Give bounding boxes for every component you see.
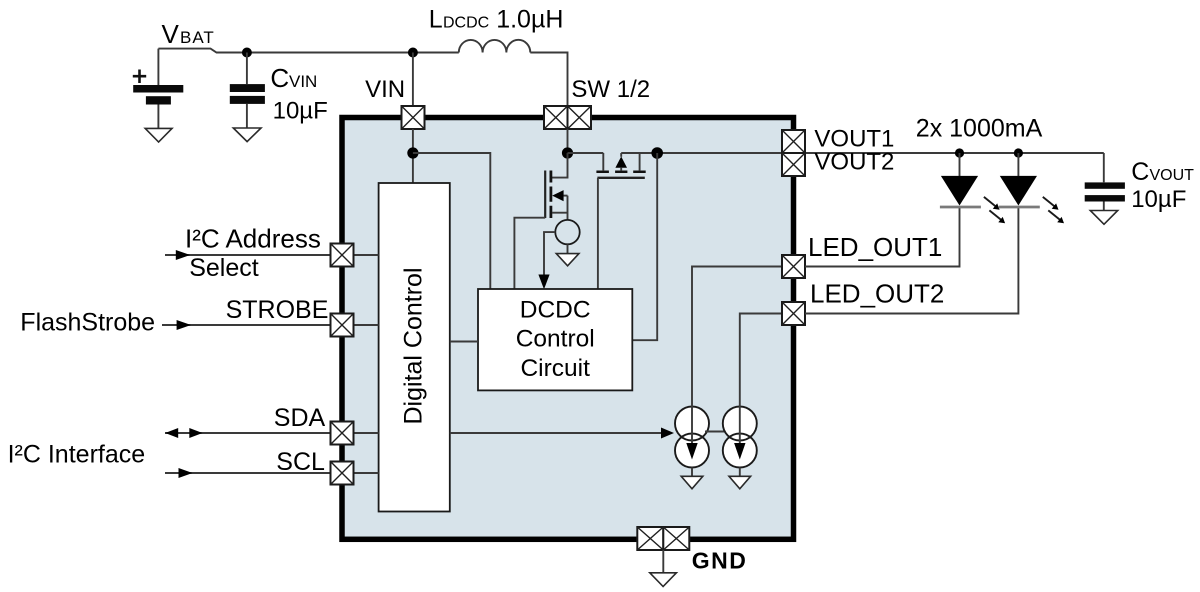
wire inductor to SW (530, 53, 567, 107)
svg-text:C: C (270, 63, 289, 93)
node N2 junction (408, 48, 418, 58)
svg-text:1.0µH: 1.0µH (496, 6, 563, 34)
wire Digital Control to DCDC (450, 341, 478, 343)
svg-text:Select: Select (189, 254, 259, 282)
ground (CVOUT) (1090, 211, 1117, 225)
wire VOUT rail (621, 152, 1104, 154)
svg-text:Control: Control (516, 326, 595, 353)
svg-text:Digital Control: Digital Control (400, 267, 428, 424)
node D1 anode junction (955, 148, 964, 157)
svg-text:DCDC: DCDC (520, 297, 591, 324)
pin SW1/2 (544, 106, 591, 129)
pin STROBE (331, 314, 354, 337)
svg-text:Circuit: Circuit (520, 355, 590, 382)
capacitor CVIN (230, 53, 265, 128)
svg-text:DCDC: DCDC (443, 15, 489, 32)
wire VBAT rail (158, 49, 458, 53)
pin VOUT2 (782, 153, 805, 176)
wire LED_OUT1 internal (692, 267, 782, 407)
label CVOUT value (1131, 158, 1194, 213)
svg-text:STROBE: STROBE (226, 296, 329, 324)
node N1 junction (242, 48, 252, 58)
svg-text:VIN: VIN (365, 76, 405, 103)
wire LED_OUT2 internal (740, 314, 782, 407)
wire Q2 gate to DCDC (597, 178, 599, 289)
ground (I2) (681, 476, 703, 489)
wire I2C address input (165, 250, 379, 260)
ground (GND pin) (650, 573, 677, 587)
ground (I3) (729, 476, 751, 489)
svg-text:BAT: BAT (180, 28, 215, 47)
node C junction (651, 147, 663, 159)
pin SCL (331, 462, 354, 485)
ground (I1) (556, 254, 579, 266)
battery V1 (133, 49, 183, 128)
svg-text:LED_OUT1: LED_OUT1 (808, 232, 942, 262)
pin VIN (402, 106, 425, 129)
node B junction (562, 147, 573, 158)
svg-text:SDA: SDA (274, 404, 326, 432)
svg-text:V: V (162, 19, 180, 49)
node VBAT label (162, 19, 215, 49)
svg-text:VIN: VIN (289, 72, 317, 91)
svg-text:10µF: 10µF (1131, 186, 1186, 213)
transistor Q2 sync rectifier with body diode (568, 153, 646, 178)
wire GND pin to ground (662, 550, 664, 573)
node D2 anode junction (1014, 148, 1023, 157)
svg-text:LED_OUT2: LED_OUT2 (810, 279, 944, 309)
LED D1 (940, 153, 1005, 223)
wire SW pin to node B (567, 129, 569, 153)
node A junction below VIN (407, 147, 418, 158)
svg-text:SW 1/2: SW 1/2 (571, 76, 650, 103)
svg-text:SCL: SCL (276, 448, 325, 476)
ground (battery) (145, 128, 172, 142)
wire LED_OUT2 external (805, 207, 1018, 314)
wire STROBE input (162, 320, 379, 330)
svg-text:FlashStrobe: FlashStrobe (20, 309, 155, 337)
LED D2 (999, 153, 1064, 223)
label LDCDC value (429, 6, 564, 34)
pin GND (637, 527, 689, 550)
svg-text:GND: GND (692, 548, 748, 574)
pin VOUT1 (782, 130, 805, 153)
svg-text:I²C Interface: I²C Interface (8, 441, 146, 469)
svg-text:C: C (1131, 158, 1149, 186)
wire Digital Control to current sinks (arrow) (450, 428, 674, 439)
block DCDC Control Circuit (478, 289, 632, 390)
pin LED_OUT1 (782, 255, 805, 278)
current sink I3 (723, 407, 757, 477)
wire SCL input (165, 468, 379, 478)
wire N2 to VIN pin (412, 53, 414, 107)
wire Q1 gate to DCDC (514, 218, 545, 289)
wire node A to DCDC control (413, 153, 490, 289)
svg-text:2x 1000mA: 2x 1000mA (916, 115, 1043, 143)
pin SDA (331, 422, 354, 445)
block Digital Control (379, 183, 450, 512)
current sink I2 (675, 407, 709, 477)
wire link I2 to I3 (705, 431, 727, 433)
pin LED_OUT2 (782, 302, 805, 325)
wire SDA (bidirectional) (165, 428, 379, 438)
svg-text:10µF: 10µF (273, 98, 328, 125)
label CVIN value (270, 63, 327, 125)
label I2C Address Select (185, 224, 321, 282)
svg-text:L: L (429, 6, 443, 34)
svg-text:VOUT2: VOUT2 (814, 149, 894, 176)
svg-text:I²C Address: I²C Address (185, 224, 321, 254)
capacitor CVOUT (1085, 153, 1125, 210)
ground (CVIN) (233, 128, 261, 142)
wire VIN pin to Digital Control (412, 129, 414, 183)
wire LED_OUT1 external (805, 207, 960, 267)
wire VOUT feedback to DCDC (632, 153, 657, 340)
transistor Q1 NMOS switch (545, 153, 567, 220)
wire I1 sense to DCDC (arrow) (538, 232, 555, 289)
svg-text:VOUT: VOUT (1150, 167, 1195, 184)
IC block U1 body (342, 118, 794, 540)
pin ADDR (331, 244, 354, 267)
inductor LDCDC (459, 40, 531, 53)
current source I1 (555, 220, 579, 253)
